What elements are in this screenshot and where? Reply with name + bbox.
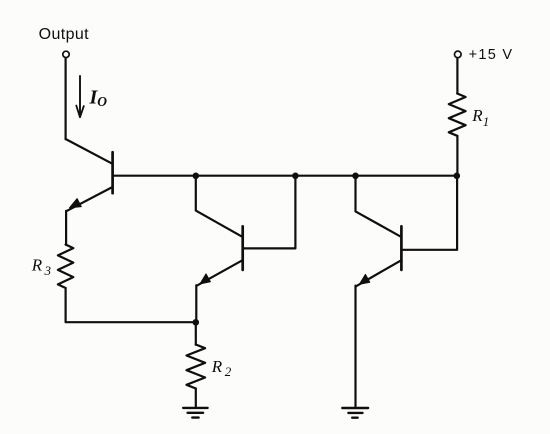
wire R2 to ground	[195, 389, 197, 407]
wire Q3 emitter down to ground	[354, 286, 356, 407]
svg-text:R: R	[211, 357, 223, 376]
svg-text:R: R	[471, 106, 483, 125]
wire Q2 emitter down	[195, 285, 197, 322]
output terminal	[63, 51, 69, 57]
wire base rail	[113, 175, 457, 177]
current arrow I_O	[76, 76, 84, 117]
svg-text:O: O	[97, 94, 107, 109]
wire Q3 base to R1 node	[401, 176, 457, 250]
wire Q1 emitter to R3	[65, 211, 67, 245]
resistor R3	[58, 245, 73, 289]
wire R1 to rail	[456, 136, 458, 176]
svg-text:1: 1	[483, 114, 490, 129]
svg-text:2: 2	[225, 364, 232, 379]
node B rail-Q2 base	[292, 173, 299, 180]
transistor Q2	[196, 176, 243, 286]
resistor R1	[449, 94, 466, 136]
svg-text:+15 V: +15 V	[469, 47, 514, 63]
node E bottom R2 junction	[193, 319, 200, 326]
transistor Q1	[66, 139, 113, 211]
svg-text:R: R	[31, 256, 43, 275]
transistor Q3	[356, 176, 402, 287]
ground left	[183, 408, 207, 418]
ground right	[342, 408, 368, 418]
resistor R2	[187, 345, 206, 389]
node A rail-Q2 collector	[193, 173, 200, 180]
wire Q2 base to rail	[243, 176, 296, 249]
svg-text:Output: Output	[39, 26, 90, 43]
wire R3 bottom to node	[66, 288, 196, 322]
+15V terminal	[455, 51, 462, 58]
node D rail-R1	[454, 173, 461, 180]
svg-text:3: 3	[44, 263, 52, 278]
wire output vertical	[64, 58, 66, 139]
wire node to R2	[195, 322, 197, 345]
node C rail-Q3 collector	[352, 173, 359, 180]
wire +15V to R1	[456, 58, 458, 94]
